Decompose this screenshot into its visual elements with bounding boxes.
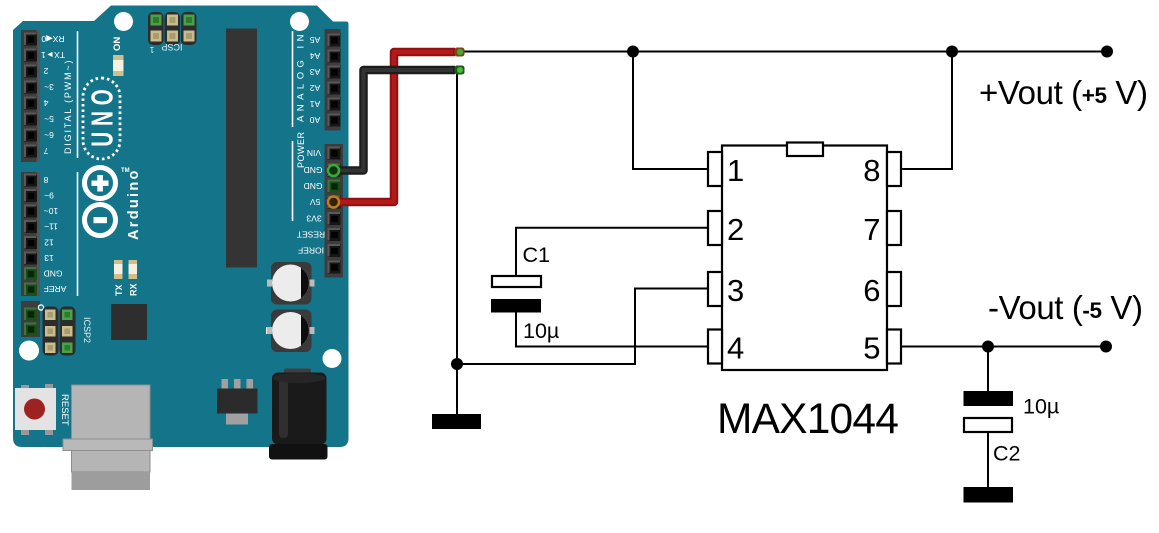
svg-text:RESET: RESET bbox=[297, 230, 325, 240]
capacitor C2 bottom plate bbox=[964, 418, 1012, 432]
svg-text:A3: A3 bbox=[310, 67, 321, 77]
svg-text:4: 4 bbox=[43, 98, 48, 108]
red jumper wire 5V bbox=[327, 48, 465, 208]
ATmega DIP IC bar bbox=[226, 29, 257, 268]
mounting hole top-left bbox=[114, 12, 133, 31]
+Vout terminal node bbox=[1101, 46, 1113, 58]
digital pin labels bbox=[41, 34, 67, 294]
svg-text:AREF: AREF bbox=[44, 284, 67, 294]
svg-text:6~: 6~ bbox=[44, 130, 54, 140]
svg-text:RESET: RESET bbox=[59, 394, 70, 426]
svg-text:3~: 3~ bbox=[44, 82, 54, 92]
digital header strip 1 (pins 0-7) bbox=[21, 30, 40, 162]
ANALOG IN silkscreen bbox=[292, 31, 294, 127]
svg-text:C2: C2 bbox=[993, 442, 1020, 466]
wire C2 bottom to ground bbox=[987, 432, 989, 487]
TX LED bbox=[114, 260, 123, 279]
svg-text:13: 13 bbox=[44, 253, 54, 263]
svg-text:7: 7 bbox=[863, 212, 880, 247]
mounting hole top-right bbox=[290, 12, 309, 31]
analog header strip bbox=[325, 29, 341, 131]
svg-text:TX: TX bbox=[114, 284, 124, 296]
capacitor C1 bottom plate bbox=[491, 299, 541, 313]
svg-text:8: 8 bbox=[863, 153, 880, 188]
svg-text:TM: TM bbox=[121, 168, 130, 174]
pin 2 bbox=[708, 211, 722, 245]
svg-text:-Vout (-5 V): -Vout (-5 V) bbox=[988, 289, 1143, 326]
svg-text:RX◀0: RX◀0 bbox=[41, 34, 64, 44]
capacitor C1 top plate bbox=[492, 276, 541, 287]
junction node ground bbox=[451, 358, 463, 370]
junction node on rail (pin8 tap) bbox=[946, 46, 958, 58]
svg-text:TX►1: TX►1 bbox=[41, 50, 65, 60]
wire pin 3 to ground node bbox=[457, 289, 708, 365]
wire rail to pin 1 bbox=[633, 52, 708, 170]
analog labels bbox=[310, 35, 321, 125]
ground symbol right bbox=[964, 487, 1014, 503]
mounting hole bottom-left bbox=[19, 341, 39, 361]
svg-text:2: 2 bbox=[727, 212, 744, 247]
svg-text:+Vout (+5 V): +Vout (+5 V) bbox=[979, 74, 1148, 111]
white silkscreen tick bbox=[266, 327, 271, 334]
wire +5V top rail bbox=[458, 51, 1107, 53]
pin 6 bbox=[887, 272, 901, 306]
svg-text:IOREF: IOREF bbox=[298, 246, 324, 256]
SDA/SCL 2-pin strip bbox=[21, 301, 40, 337]
black wire end cap bbox=[455, 66, 465, 75]
wire -Vout junction to C2 bbox=[987, 347, 989, 392]
svg-text:GND: GND bbox=[304, 165, 323, 175]
svg-text:ICSP2: ICSP2 bbox=[82, 317, 92, 343]
-Vout terminal node bbox=[1100, 341, 1112, 353]
wire C1 bottom to pin 4 bbox=[516, 313, 708, 347]
digital header strip 2 (pins 8-AREF) bbox=[21, 172, 40, 296]
svg-text:ANALOG IN: ANALOG IN bbox=[296, 34, 307, 122]
pin 4 bbox=[708, 330, 722, 364]
junction node -Vout / C2 bbox=[982, 341, 994, 353]
power header strip bbox=[325, 144, 344, 278]
svg-text:GND: GND bbox=[304, 181, 323, 191]
svg-text:7: 7 bbox=[43, 146, 48, 156]
GND pin ring bbox=[328, 165, 339, 176]
junction node on rail (pin1 tap) bbox=[627, 46, 639, 58]
svg-text:A2: A2 bbox=[310, 83, 321, 93]
svg-text:A1: A1 bbox=[310, 99, 321, 109]
svg-text:5: 5 bbox=[863, 331, 880, 366]
Arduino infinity logo bbox=[85, 168, 116, 236]
capacitor C2 top plate bbox=[964, 391, 1014, 406]
ground symbol left bbox=[432, 414, 481, 429]
power labels bbox=[297, 148, 325, 256]
wire pin 5 to -Vout bbox=[901, 346, 1106, 348]
schematic wires and components bbox=[457, 52, 1107, 488]
IC U1 MAX1044 body bbox=[708, 143, 901, 371]
POWER silkscreen bbox=[292, 141, 294, 221]
svg-text:11~: 11~ bbox=[44, 222, 58, 232]
electrolytic capacitor body 2 bbox=[267, 310, 315, 353]
svg-text:VIN: VIN bbox=[307, 148, 321, 158]
pin 5 bbox=[887, 330, 901, 364]
black jumper wire GND bbox=[327, 66, 465, 177]
pin 7 bbox=[887, 211, 901, 245]
svg-text:GND: GND bbox=[44, 269, 63, 279]
svg-text:Arduino: Arduino bbox=[126, 168, 142, 240]
svg-text:RX: RX bbox=[129, 283, 139, 296]
pin 1 bbox=[708, 152, 722, 186]
pin 3 bbox=[708, 272, 722, 306]
svg-text:ICSP: ICSP bbox=[161, 42, 182, 52]
svg-text:10µ: 10µ bbox=[1023, 395, 1059, 419]
wire pin 2 to C1 top bbox=[516, 228, 708, 276]
red wire end cap bbox=[455, 48, 465, 57]
svg-text:A0: A0 bbox=[310, 115, 321, 125]
mounting hole right bbox=[323, 349, 342, 368]
svg-text:1: 1 bbox=[149, 45, 154, 54]
svg-text:6: 6 bbox=[863, 273, 880, 308]
svg-text:POWER: POWER bbox=[296, 131, 306, 168]
svg-text:3: 3 bbox=[727, 273, 744, 308]
svg-text:4: 4 bbox=[727, 331, 744, 366]
svg-text:8: 8 bbox=[43, 175, 48, 185]
pin 8 bbox=[887, 152, 901, 186]
svg-text:A5: A5 bbox=[310, 35, 321, 45]
svg-text:5V: 5V bbox=[309, 197, 320, 207]
svg-text:5~: 5~ bbox=[44, 114, 54, 124]
silkscreen circle marker bbox=[38, 305, 43, 310]
svg-text:UNO: UNO bbox=[84, 83, 119, 146]
svg-text:10~: 10~ bbox=[44, 206, 58, 216]
svg-text:DIGITAL (PWM~): DIGITAL (PWM~) bbox=[63, 60, 73, 154]
board PCB outline bbox=[13, 6, 349, 448]
ICSP2 header (bottom) bbox=[43, 307, 76, 356]
voltage regulator bbox=[217, 379, 258, 425]
wire GND vertical bbox=[456, 70, 458, 414]
USB connector bbox=[63, 385, 153, 490]
UNO dashed stadium logo bbox=[83, 78, 120, 159]
svg-text:C1: C1 bbox=[523, 243, 550, 267]
svg-text:A4: A4 bbox=[310, 51, 321, 61]
RESET button bbox=[15, 384, 56, 435]
RX LED bbox=[129, 260, 138, 279]
Arduino UNO board (rotated breadboard view) bbox=[13, 6, 349, 491]
5V pin ring bbox=[328, 197, 339, 208]
svg-text:MAX1044: MAX1044 bbox=[717, 396, 898, 443]
notch at pin 1 end bbox=[787, 143, 823, 157]
DIGITAL (PWM~) silkscreen bbox=[77, 31, 79, 158]
wire rail to pin 8 bbox=[901, 52, 952, 170]
ICSP header (top) bbox=[148, 12, 197, 45]
electrolytic capacitor body 1 bbox=[267, 262, 315, 305]
power barrel jack bbox=[269, 369, 328, 460]
svg-text:ON: ON bbox=[112, 37, 123, 51]
svg-text:10µ: 10µ bbox=[523, 319, 559, 343]
svg-text:2: 2 bbox=[43, 66, 48, 76]
svg-text:1: 1 bbox=[727, 153, 744, 188]
svg-text:9~: 9~ bbox=[44, 191, 54, 201]
svg-text:3V3: 3V3 bbox=[306, 214, 321, 224]
svg-text:12: 12 bbox=[44, 238, 54, 248]
pin number labels bbox=[727, 153, 881, 366]
small IC chip bbox=[111, 304, 147, 340]
